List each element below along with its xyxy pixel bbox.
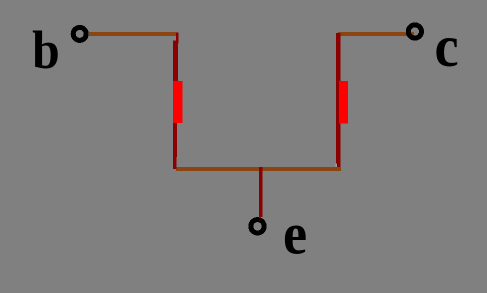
svg-text:b: b	[32, 21, 60, 80]
resistor rb (left red body)	[173, 81, 183, 123]
svg-text:c: c	[435, 14, 459, 80]
wire: base horizontal (b to left branch)	[89, 32, 177, 36]
wire: emitter stub	[259, 167, 263, 217]
terminal e	[251, 220, 264, 233]
wire: collector horizontal (right branch to c)	[338, 32, 414, 36]
notch artifact at bottom-left of right vertical	[335, 163, 337, 167]
wire: left vertical top stub (base branch)	[176, 33, 178, 42]
wire: right vertical (collector branch)	[336, 33, 341, 167]
wire: bottom horizontal (joining both branches)	[176, 167, 341, 171]
terminal b	[73, 27, 86, 40]
svg-text:e: e	[283, 201, 307, 267]
resistor rc (right red body)	[339, 81, 348, 123]
terminal c	[408, 25, 421, 38]
wire: left vertical (base branch)	[173, 41, 178, 170]
